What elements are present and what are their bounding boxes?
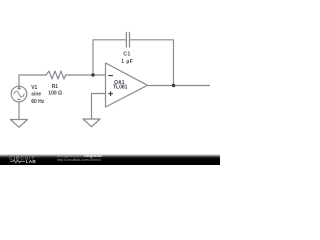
svg-text:sine: sine [31,92,41,98]
svg-text:TL081: TL081 [113,85,128,91]
wire R1 to op-amp minus input [66,74,106,76]
wire V1 to R1 [19,74,46,76]
svg-text:V1: V1 [31,85,37,91]
wire output [148,85,210,87]
V1 plus sign [17,86,21,99]
junction node B (output/feedback) [172,84,175,87]
op-amp plus label [108,93,113,95]
wire V1 top stem [18,75,20,86]
V1 minus sign [17,98,21,100]
wire feedback riser left [93,40,126,75]
logo resistor squiggle [10,160,25,163]
voltage source V1 circle [11,86,27,102]
junction node A (minus input) [91,73,94,76]
ground G1 [11,120,28,128]
svg-text:R1: R1 [52,84,59,90]
svg-text:60 Hz: 60 Hz [31,99,45,105]
svg-text:LAB: LAB [26,159,37,164]
ground G2 [83,119,100,127]
footer bar [0,154,220,165]
op-amp OA1 triangle [106,63,148,107]
svg-text:100 Ω: 100 Ω [48,91,62,97]
svg-text:1 µF: 1 µF [121,59,133,65]
svg-text:http://circuitlab.com/c95m3r: http://circuitlab.com/c95m3r [57,158,102,162]
resistor R1 [46,71,66,79]
wire feedback top right [130,40,174,86]
V1 sine symbol [14,91,24,97]
capacitor C1 [126,32,129,47]
wire plus input to ground [92,94,106,120]
op-amp minus label [108,76,113,96]
wire V1 bottom stem [18,102,20,120]
svg-text:C1: C1 [123,52,130,58]
